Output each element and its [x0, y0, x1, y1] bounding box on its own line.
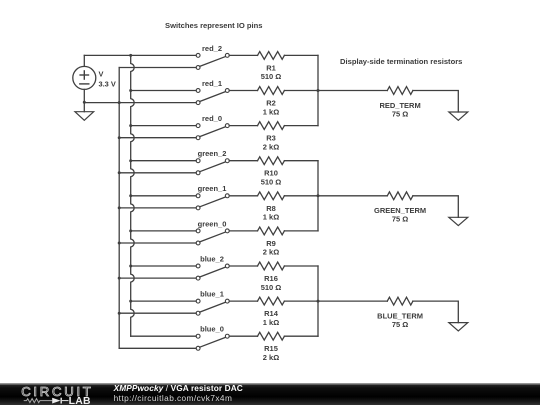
wire: switch red_1 common to resistor R2 — [229, 90, 257, 92]
junction dot on 3.3V bus — [129, 89, 132, 92]
svg-text:75 Ω: 75 Ω — [392, 109, 408, 118]
junction dot: top rail meets 3.3V bus — [129, 54, 132, 57]
svg-text:red_1: red_1 — [202, 79, 222, 88]
ground symbol at GREEN_TERM — [449, 217, 468, 225]
svg-text:R15: R15 — [264, 344, 278, 353]
wire: V+ up to top rail — [83, 55, 85, 66]
footer bar — [0, 383, 540, 405]
wire: switch red_2 common to resistor R1 — [229, 54, 257, 56]
resistor R9 (2 kΩ) — [258, 227, 285, 235]
wire: to GREEN_TERM resistor — [318, 195, 387, 197]
wire: resistor R8 to output bus — [284, 195, 318, 197]
wire: resistor R9 to output bus — [284, 230, 318, 232]
resistor RED_TERM (75 Ω) — [387, 87, 413, 95]
wire: GREEN_TERM resistor to ground — [413, 196, 458, 218]
switch blue_1 — [196, 299, 229, 315]
wire: ground bus to blue_1 bottom throw — [119, 312, 196, 314]
wire: ground bus to blue_2 bottom throw — [119, 277, 196, 279]
wire: green output combiner vertical — [317, 161, 319, 231]
resistor R2 (1 kΩ) — [258, 87, 285, 95]
junction dot: V- to ground bus — [83, 101, 86, 104]
svg-text:510 Ω: 510 Ω — [261, 283, 282, 292]
resistor R16 (510 Ω) — [258, 262, 285, 270]
switch red_2 — [196, 53, 229, 69]
svg-text:R1: R1 — [266, 63, 276, 72]
switch blue_2 — [196, 264, 229, 280]
ground symbol at BLUE_TERM — [449, 323, 468, 331]
wire: to BLUE_TERM resistor — [318, 300, 387, 302]
switch blue_0 — [196, 334, 229, 350]
switch green_1 — [196, 194, 229, 210]
logo diode arrow — [52, 397, 60, 403]
wire: resistor R3 to output bus — [284, 125, 318, 127]
junction dot on ground bus — [118, 136, 121, 139]
junction dot on ground bus — [118, 312, 121, 315]
wire: switch green_2 common to resistor R10 — [229, 160, 257, 162]
wire: ground bus to green_2 bottom throw — [119, 172, 196, 174]
svg-text:V: V — [99, 70, 104, 79]
wire: switch blue_0 common to resistor R15 — [229, 335, 257, 337]
ground symbol at RED_TERM — [449, 112, 468, 120]
wire: BLUE_TERM resistor to ground — [413, 301, 458, 323]
junction dot: BLUE_TERM node — [317, 300, 320, 303]
svg-text:blue_2: blue_2 — [200, 254, 224, 263]
wire: 3.3V bus to red_0 top throw — [131, 125, 196, 127]
svg-text:R9: R9 — [266, 239, 276, 248]
switch red_0 — [196, 124, 229, 140]
wire: switch blue_2 common to resistor R16 — [229, 265, 257, 267]
switch green_0 — [196, 229, 229, 245]
ground symbol at voltage source — [75, 112, 94, 121]
wire: resistor R14 to output bus — [284, 300, 318, 302]
svg-text:Switches represent IO pins: Switches represent IO pins — [165, 21, 262, 30]
svg-text:green_2: green_2 — [198, 149, 227, 158]
svg-text:R3: R3 — [266, 134, 276, 143]
CircuitLab logo — [0, 383, 110, 405]
junction dot on 3.3V bus — [129, 300, 132, 303]
svg-text:R14: R14 — [264, 309, 279, 318]
svg-text:2 kΩ: 2 kΩ — [263, 248, 279, 257]
svg-text:3.3 V: 3.3 V — [99, 80, 116, 89]
logo resistor squiggle — [24, 398, 53, 402]
resistor GREEN_TERM (75 Ω) — [387, 192, 413, 200]
svg-text:510 Ω: 510 Ω — [261, 72, 282, 81]
svg-text:blue_0: blue_0 — [200, 325, 224, 334]
svg-text:1 kΩ: 1 kΩ — [263, 107, 279, 116]
junction dot: GREEN_TERM node — [317, 194, 320, 197]
wire: V- down to ground — [83, 89, 85, 111]
svg-text:75 Ω: 75 Ω — [392, 320, 408, 329]
svg-text:green_0: green_0 — [198, 219, 227, 228]
wire: ground vertical bus — [118, 68, 120, 349]
junction dot on ground bus — [118, 242, 121, 245]
junction dot on 3.3V bus — [129, 159, 132, 162]
svg-text:R2: R2 — [266, 99, 276, 108]
junction dot on 3.3V bus — [129, 229, 132, 232]
wire: RED_TERM resistor to ground — [413, 91, 458, 113]
junction dot on 3.3V bus — [129, 124, 132, 127]
wire: 3.3V vertical bus with hops over ground-row wires — [131, 55, 134, 336]
wire: ground bus to green_0 bottom throw — [119, 242, 196, 244]
switch green_2 — [196, 159, 229, 175]
wire: resistor R10 to output bus — [284, 160, 318, 162]
svg-text:2 kΩ: 2 kΩ — [263, 142, 279, 151]
svg-text:green_1: green_1 — [198, 184, 227, 193]
svg-text:R16: R16 — [264, 274, 278, 283]
wire: switch red_0 common to resistor R3 — [229, 125, 257, 127]
resistor R14 (1 kΩ) — [258, 297, 285, 305]
svg-text:blue_1: blue_1 — [200, 290, 224, 299]
wire: 3.3V bus to blue_1 top throw — [131, 300, 196, 302]
wire: ground bus to blue_0 bottom throw — [119, 347, 196, 349]
voltage source V (3.3 V) — [73, 66, 96, 89]
svg-text:Display-side termination resis: Display-side termination resistors — [340, 57, 462, 66]
junction dot: RED_TERM node — [317, 89, 320, 92]
wire: resistor R2 to output bus — [284, 90, 318, 92]
junction dot on ground bus — [118, 206, 121, 209]
svg-text:LAB: LAB — [69, 396, 91, 405]
svg-text:R10: R10 — [264, 169, 278, 178]
switch red_1 — [196, 89, 229, 105]
svg-text:1 kΩ: 1 kΩ — [263, 213, 279, 222]
wire: resistor R1 to output bus — [284, 54, 318, 56]
wire: blue output combiner vertical — [317, 266, 319, 336]
resistor R8 (1 kΩ) — [258, 192, 285, 200]
footer url text — [114, 393, 233, 403]
wire: ground bus to red_1 bottom throw — [84, 102, 196, 104]
wire: 3.3V bus to green_1 top throw — [131, 195, 196, 197]
wire: 3.3V bus to red_1 top throw — [131, 90, 196, 92]
wire: resistor R15 to output bus — [284, 335, 318, 337]
resistor R10 (510 Ω) — [258, 157, 285, 165]
svg-text:red_0: red_0 — [202, 114, 222, 123]
svg-text:75 Ω: 75 Ω — [392, 215, 408, 224]
wire: red output combiner vertical — [317, 55, 319, 125]
wire: switch green_1 common to resistor R8 — [229, 195, 257, 197]
wire: 3.3V bus to blue_0 top throw — [131, 335, 196, 337]
svg-text:R8: R8 — [266, 204, 276, 213]
wire: ground bus to green_1 bottom throw — [119, 207, 196, 209]
svg-text:red_2: red_2 — [202, 44, 222, 53]
wire: ground bus to red_2 bottom throw — [119, 67, 196, 69]
wire: switch blue_1 common to resistor R14 — [229, 300, 257, 302]
junction dot on ground bus — [118, 277, 121, 280]
resistor R3 (2 kΩ) — [258, 122, 285, 130]
wire: top rail from V+ to switch red_2 top throw — [84, 54, 196, 56]
wire: resistor R16 to output bus — [284, 265, 318, 267]
resistor R1 (510 Ω) — [258, 52, 285, 60]
junction dot on ground bus — [118, 101, 121, 104]
svg-text:1 kΩ: 1 kΩ — [263, 318, 279, 327]
resistor BLUE_TERM (75 Ω) — [387, 297, 413, 305]
wire: to RED_TERM resistor — [318, 90, 387, 92]
wire: 3.3V bus to green_2 top throw — [131, 160, 196, 162]
wire: 3.3V bus to blue_2 top throw — [131, 265, 196, 267]
resistor R15 (2 kΩ) — [258, 332, 285, 340]
wire: 3.3V bus to green_0 top throw — [131, 230, 196, 232]
wire: switch green_0 common to resistor R9 — [229, 230, 257, 232]
junction dot on 3.3V bus — [129, 194, 132, 197]
junction dot on 3.3V bus — [129, 265, 132, 268]
footer title text — [114, 383, 243, 393]
svg-text:510 Ω: 510 Ω — [261, 178, 282, 187]
svg-text:2 kΩ: 2 kΩ — [263, 353, 279, 362]
wire: ground bus to red_0 bottom throw — [119, 137, 196, 139]
junction dot on ground bus — [118, 171, 121, 174]
